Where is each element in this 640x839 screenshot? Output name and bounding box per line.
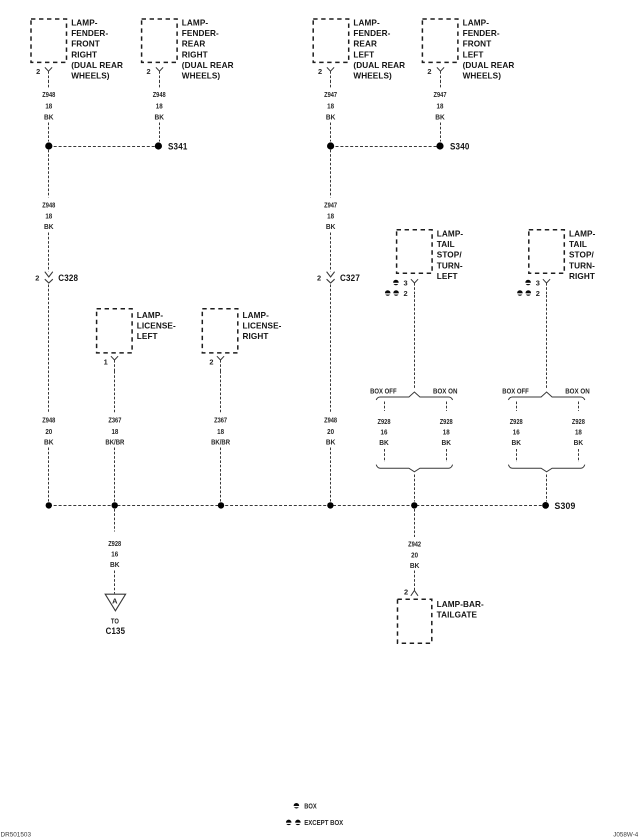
wire from lamp tail stop/turn left to branch split [414,295,416,390]
svg-text:16: 16 [381,427,388,436]
svg-text:3: 3 [536,278,540,287]
svg-text:LAMP-BAR-TAILGATE: LAMP-BAR-TAILGATE [437,600,484,620]
svg-text:2: 2 [147,67,151,76]
wire into ground bus from lamp license left [114,448,116,502]
svg-text:BOX ON: BOX ON [433,386,458,395]
ground bus wire to S309 [49,505,546,507]
svg-text:18: 18 [575,427,582,436]
pin-2 fork connector of lamp fender front left [437,67,444,71]
pin fork connector of lamp tail stop/turn left [411,279,418,283]
branch wire box-on stub lower (lamp tail stop/turn left) [446,449,448,462]
wire from lamp tail stop/turn right to branch split [546,295,548,390]
component box lamp license left [97,309,133,353]
branch merge brace below lamp tail stop/turn right [508,465,584,472]
pin-2 fork connector of lamp fender rear right [156,67,163,71]
svg-text:2: 2 [35,273,39,282]
svg-text:Z367: Z367 [214,415,227,424]
pin-2 fork connector of lamp fender front right [45,67,52,71]
wire splice bus S341 [49,146,159,148]
component box lamp fender rear left [313,19,349,62]
svg-text:BK: BK [435,112,445,121]
svg-text:J058W-4: J058W-4 [613,831,638,838]
box-option symbol at pin 3 of lamp tail stop/turn right [525,280,531,286]
svg-text:18: 18 [45,211,52,220]
wire into splice from lamp fender front left [440,123,442,142]
svg-text:16: 16 [513,427,520,436]
svg-text:Z928: Z928 [108,539,121,548]
svg-text:BK: BK [44,437,54,446]
svg-text:Z947: Z947 [324,201,337,210]
svg-text:20: 20 [327,427,334,436]
svg-text:BK: BK [326,437,336,446]
svg-text:18: 18 [217,427,224,436]
svg-text:2: 2 [404,289,408,298]
svg-text:BK: BK [44,222,54,231]
component box lamp tail stop/turn right [529,230,565,273]
junction dot S340 left [327,142,334,149]
wire above connector C328 [48,233,50,272]
wire into ground bus from C328 [48,448,50,502]
svg-text:BK/BR: BK/BR [105,437,124,446]
svg-text:3: 3 [404,278,408,287]
svg-text:BK: BK [511,438,521,447]
svg-text:BK: BK [379,438,389,447]
except-box symbol a at pin 2 of lamp tail stop/turn right [517,290,523,296]
svg-text:BK: BK [410,561,420,570]
wire from lamp fender front right [48,81,50,90]
wire from lamp fender rear left [330,81,332,90]
svg-text:Z928: Z928 [510,417,523,426]
junction dot bus at license-left column [112,502,118,508]
svg-text:C327: C327 [340,273,360,283]
wire from lamp license right [220,371,222,413]
svg-text:18: 18 [443,427,450,436]
svg-text:18: 18 [111,427,118,436]
junction dot S340 right [436,142,443,149]
svg-text:S309: S309 [555,501,576,511]
pin-2 fork connector of lamp bar tailgate [411,591,418,596]
wire into splice from lamp fender rear left [330,123,332,142]
off-page connector triangle A [105,594,125,611]
svg-text:BK/BR: BK/BR [211,437,230,446]
branch wire box-on stub lower (lamp tail stop/turn right) [578,449,580,462]
wire from lamp fender front left [440,81,442,90]
svg-text:BK: BK [110,560,120,569]
branch wire box-on stub upper (lamp tail stop/turn right) [578,402,580,412]
wire into C135 off-page triangle [114,571,116,594]
branch wire box-off stub lower (lamp tail stop/turn right) [516,449,518,462]
svg-text:C135: C135 [106,626,126,636]
svg-text:Z948: Z948 [42,415,55,424]
pin fork connector of lamp license left [111,356,118,360]
except-box symbol a at pin 2 of lamp tail stop/turn left [385,290,391,296]
junction dot bus at C328 column [46,502,52,508]
wire bus down toward lamp bar [414,509,416,537]
wire from branch merge to ground bus (lamp tail stop/turn right) [546,475,548,502]
svg-text:2: 2 [36,67,40,76]
svg-text:TO: TO [111,617,119,626]
branch wire box-off stub upper (lamp tail stop/turn right) [516,402,518,412]
except-box symbol b at pin 2 of lamp tail stop/turn left [393,290,399,296]
svg-text:BOX OFF: BOX OFF [502,386,529,395]
svg-text:BK: BK [574,438,584,447]
svg-text:Z948: Z948 [42,90,55,99]
junction dot S341 right [155,142,162,149]
component box lamp fender front right [31,19,67,62]
svg-text:Z948: Z948 [153,90,166,99]
svg-text:Z948: Z948 [42,201,55,210]
svg-text:BK: BK [44,112,54,121]
svg-text:18: 18 [45,102,52,111]
svg-text:BOX OFF: BOX OFF [370,386,397,395]
component box lamp fender front left [422,19,458,62]
branch wire box-off stub upper (lamp tail stop/turn left) [384,402,386,412]
svg-text:18: 18 [156,102,163,111]
junction dot S341 left [45,142,52,149]
wire C327 to bus upper [330,285,332,413]
svg-text:Z928: Z928 [440,417,453,426]
junction dot bus at tail-left column [411,502,417,508]
svg-text:Z928: Z928 [572,417,585,426]
legend symbol box [294,803,300,809]
svg-text:1: 1 [104,357,108,366]
svg-text:Z948: Z948 [324,415,337,424]
svg-text:20: 20 [411,550,418,559]
wire from branch merge to ground bus (lamp tail stop/turn left) [414,475,416,502]
wire splice bus S340 [331,146,440,148]
svg-text:20: 20 [45,427,52,436]
component box lamp tail stop/turn left [397,230,433,273]
legend symbol except-box a [286,820,292,826]
wire into splice from lamp fender rear right [159,123,161,142]
branch wire box-off stub lower (lamp tail stop/turn left) [384,449,386,462]
wire S340 to C327 upper [330,150,332,198]
branch split brace below lamp tail stop/turn right [508,392,584,400]
svg-text:LAMP-TAILSTOP/TURN-RIGHT: LAMP-TAILSTOP/TURN-RIGHT [569,229,596,280]
svg-text:18: 18 [437,102,444,111]
svg-text:S340: S340 [450,142,470,152]
wire from lamp fender rear right [159,81,161,90]
svg-text:BK: BK [326,112,336,121]
svg-text:2: 2 [536,289,540,298]
svg-text:A: A [112,596,118,605]
svg-text:18: 18 [327,211,334,220]
component box lamp fender rear right [142,19,178,62]
pin-2 fork connector of lamp fender rear left [327,67,334,71]
svg-text:2: 2 [404,587,408,596]
wire into lamp bar tailgate [414,571,416,591]
svg-text:Z942: Z942 [408,540,421,549]
component box lamp bar tailgate [398,599,432,643]
svg-text:EXCEPT BOX: EXCEPT BOX [304,818,343,827]
branch wire box-on stub upper (lamp tail stop/turn left) [446,402,448,412]
svg-text:2: 2 [317,273,321,282]
except-box symbol b at pin 2 of lamp tail stop/turn right [526,290,532,296]
junction dot S309 [542,502,549,509]
svg-text:18: 18 [327,102,334,111]
wire bus down toward C135 [114,509,116,532]
wire above connector C327 [330,233,332,272]
svg-text:S341: S341 [168,142,188,152]
svg-text:Z947: Z947 [434,90,447,99]
svg-text:Z367: Z367 [108,415,121,424]
wire S341 to C328 upper [48,150,50,198]
wire into ground bus from C327 [330,448,332,502]
in-line connector C328 symbol [45,272,53,277]
branch split brace below lamp tail stop/turn left [376,392,452,400]
svg-text:Z947: Z947 [324,90,337,99]
svg-text:C328: C328 [58,273,78,283]
svg-text:Z928: Z928 [378,417,391,426]
in-line connector C327 symbol [327,272,335,277]
svg-text:BK: BK [154,112,164,121]
pin fork connector of lamp tail stop/turn right [543,279,550,283]
svg-text:16: 16 [111,549,118,558]
junction dot bus at license-right column [218,502,224,508]
junction dot bus at C327 column [327,502,333,508]
svg-text:2: 2 [318,67,322,76]
svg-text:BOX: BOX [304,801,317,810]
svg-text:DR501503: DR501503 [1,831,32,838]
box-option symbol at pin 3 of lamp tail stop/turn left [393,280,399,286]
svg-text:BOX ON: BOX ON [565,386,590,395]
wire into ground bus from lamp license right [220,448,222,502]
pin fork connector of lamp license right [217,356,224,360]
svg-text:2: 2 [209,357,213,366]
wire into splice from lamp fender front right [48,123,50,142]
legend symbol except-box b [295,820,301,826]
svg-text:2: 2 [427,67,431,76]
svg-text:BK: BK [441,438,451,447]
wire from lamp license left [114,371,116,413]
branch merge brace below lamp tail stop/turn left [376,465,452,472]
svg-text:BK: BK [326,222,336,231]
component box lamp license right [202,309,238,353]
wire C328 to bus upper [48,285,50,413]
